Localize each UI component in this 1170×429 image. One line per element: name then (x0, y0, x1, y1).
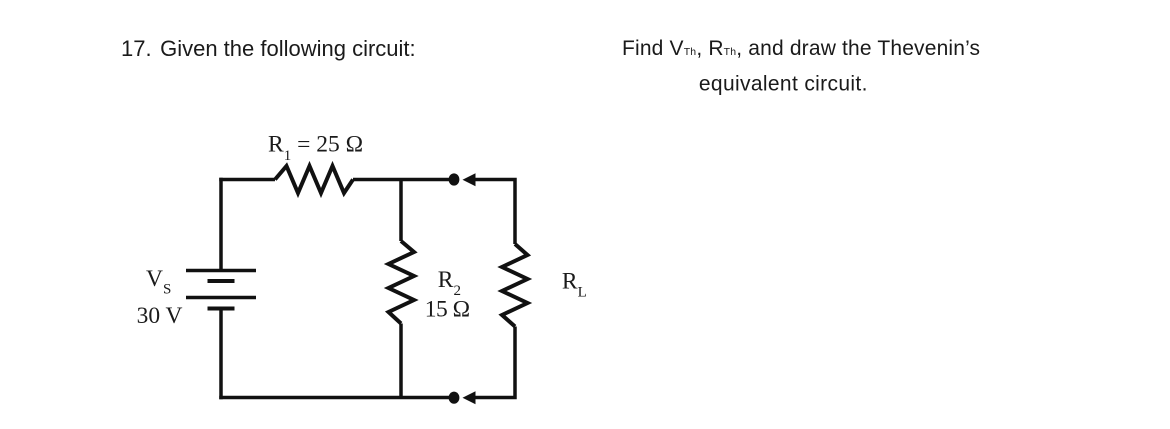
resistor R1 zigzag (275, 166, 353, 193)
svg-text:R2: R2 (438, 267, 461, 299)
wire: middle branch top (top wire to R2) (399, 180, 403, 242)
svg-text:30 V: 30 V (137, 303, 183, 329)
node A terminal dot (top) (449, 173, 460, 185)
resistor R2 zigzag (389, 241, 415, 324)
arrow into node A (pointing left) (463, 173, 476, 186)
battery plate long lower (186, 296, 256, 300)
battery plate long top (186, 269, 256, 273)
svg-text:RL: RL (562, 269, 587, 301)
resistor RL zigzag (502, 244, 528, 327)
node B terminal dot (bottom) (449, 392, 460, 404)
svg-text:15 Ω: 15 Ω (425, 297, 470, 323)
wire: left branch top (top-left corner down to battery) (219, 178, 223, 271)
svg-text:R1 = 25 Ω: R1 = 25 Ω (268, 132, 363, 164)
arrow into node B (pointing left) (463, 391, 476, 404)
svg-text:Find VTh, RTh, and draw the Th: Find VTh, RTh, and draw the Thevenin’s (622, 37, 980, 60)
wire: top-left horizontal (corner to R1) (219, 178, 275, 182)
svg-text:equivalent circuit.: equivalent circuit. (699, 73, 868, 96)
battery plate short upper (208, 279, 235, 283)
battery plate short bottom (208, 307, 235, 311)
wire: left branch bottom (battery to bottom-left corner) (219, 309, 223, 400)
svg-text:VS: VS (146, 266, 171, 297)
wire: RL bottom to node B arrow (474, 327, 517, 400)
svg-text:17.: 17. (121, 36, 152, 61)
wire: bottom (bottom-left corner to node B) (219, 396, 451, 400)
wire: middle branch bottom (R2 to bottom wire) (399, 324, 403, 398)
wire: R1 to node A (353, 178, 451, 182)
battery voltage source VS (186, 271, 256, 309)
wire: node A arrow to RL top corner (474, 178, 515, 244)
svg-text:Given the following circuit:: Given the following circuit: (160, 36, 416, 61)
